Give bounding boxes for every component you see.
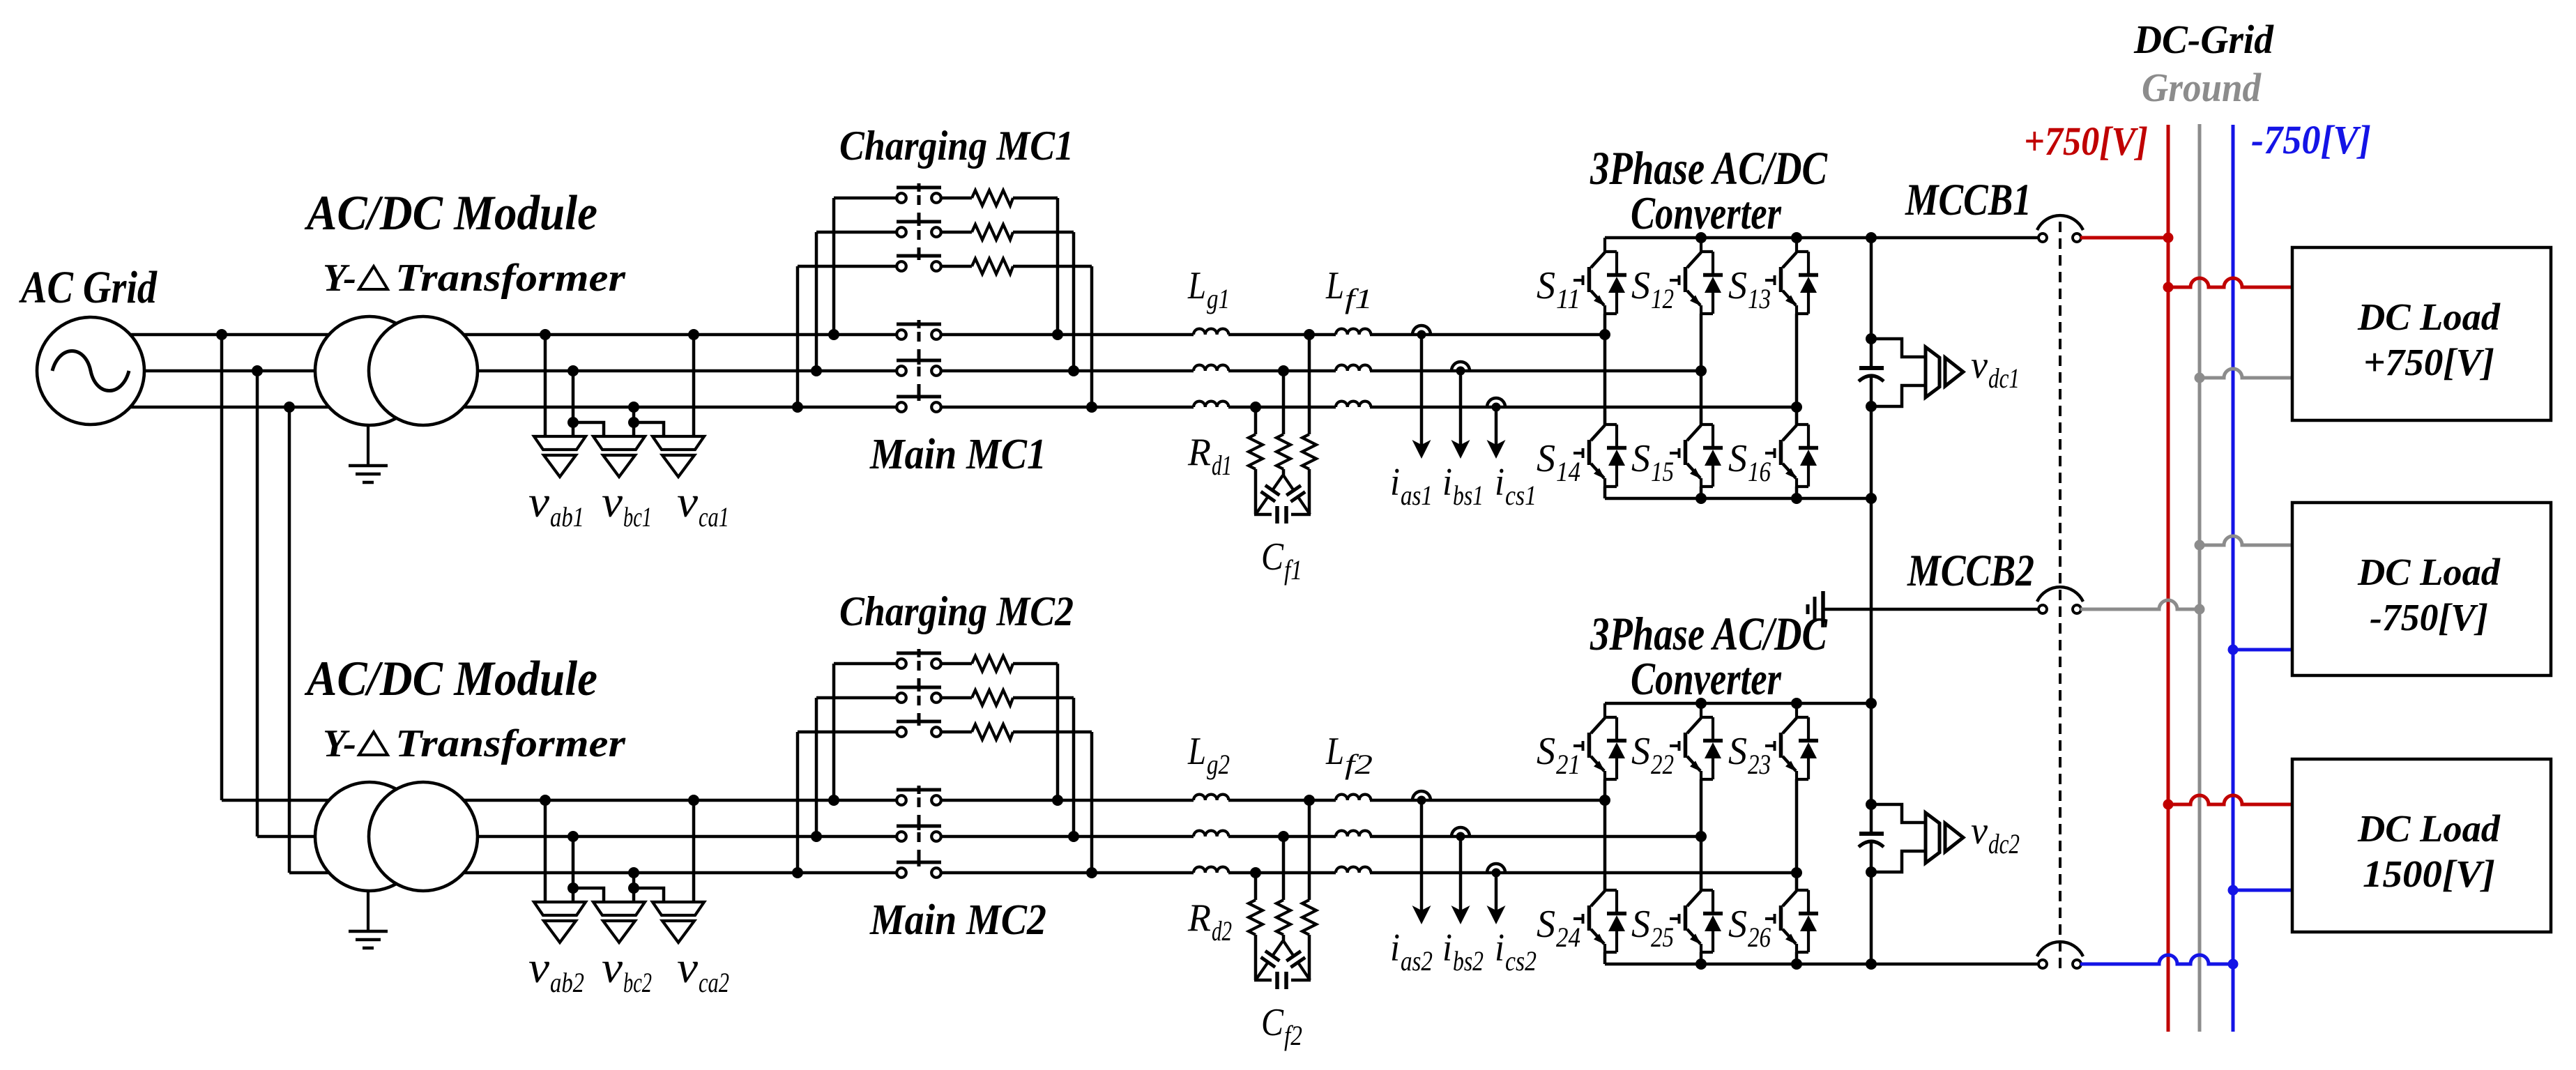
svg-text:S: S	[1631, 437, 1650, 480]
svg-text:+750[V]: +750[V]	[2024, 119, 2148, 164]
svg-text:v: v	[602, 477, 623, 526]
svg-text:-750[V]: -750[V]	[2370, 596, 2488, 639]
svg-text:S: S	[1537, 903, 1555, 946]
svg-text:R: R	[1187, 431, 1211, 474]
svg-text:bs1: bs1	[1453, 480, 1484, 511]
svg-text:S: S	[1537, 437, 1555, 480]
svg-text:16: 16	[1748, 456, 1771, 487]
svg-text:dc2: dc2	[1988, 828, 2020, 859]
svg-text:26: 26	[1748, 922, 1771, 953]
svg-text:f1: f1	[1284, 554, 1302, 586]
svg-text:S: S	[1537, 264, 1555, 307]
svg-text:14: 14	[1556, 456, 1580, 487]
svg-text:Y-: Y-	[323, 722, 356, 765]
svg-text:Main MC1: Main MC1	[869, 431, 1046, 478]
svg-text:S: S	[1631, 903, 1650, 946]
svg-text:S: S	[1728, 903, 1747, 946]
svg-text:i: i	[1495, 926, 1504, 970]
svg-text:25: 25	[1651, 922, 1674, 953]
svg-text:AC/DC Module: AC/DC Module	[304, 652, 597, 706]
svg-text:DC-Grid: DC-Grid	[2133, 17, 2274, 62]
svg-text:C: C	[1261, 535, 1284, 579]
svg-text:v: v	[602, 942, 623, 992]
svg-text:12: 12	[1651, 283, 1674, 314]
svg-text:AC/DC Module: AC/DC Module	[304, 186, 597, 240]
svg-text:S: S	[1728, 264, 1747, 307]
svg-text:DC Load: DC Load	[2357, 296, 2501, 338]
svg-text:C: C	[1261, 1001, 1284, 1044]
svg-text:22: 22	[1651, 749, 1674, 780]
svg-text:L: L	[1187, 264, 1206, 307]
svg-text:13: 13	[1748, 283, 1771, 314]
svg-text:AC Grid: AC Grid	[19, 262, 158, 313]
svg-text:Charging MC1: Charging MC1	[839, 123, 1074, 169]
svg-text:S: S	[1728, 730, 1747, 773]
svg-text:MCCB1: MCCB1	[1905, 175, 2032, 225]
svg-text:23: 23	[1748, 749, 1771, 780]
svg-text:ca1: ca1	[699, 501, 729, 533]
svg-text:-750[V]: -750[V]	[2251, 117, 2371, 162]
svg-text:S: S	[1631, 730, 1650, 773]
svg-text:R: R	[1187, 896, 1211, 940]
svg-text:v: v	[528, 942, 550, 992]
svg-text:S: S	[1728, 437, 1747, 480]
svg-text:L: L	[1325, 264, 1344, 307]
svg-text:15: 15	[1651, 456, 1674, 487]
svg-text:i: i	[1390, 926, 1400, 970]
svg-text:as1: as1	[1401, 480, 1433, 511]
svg-text:Converter: Converter	[1631, 653, 1782, 705]
svg-text:24: 24	[1556, 922, 1580, 953]
svg-text:ab1: ab1	[550, 501, 584, 533]
svg-text:Converter: Converter	[1631, 188, 1782, 239]
svg-text:d1: d1	[1212, 450, 1232, 481]
svg-text:Main MC2: Main MC2	[869, 896, 1046, 944]
svg-text:L: L	[1325, 730, 1344, 773]
svg-text:i: i	[1390, 461, 1400, 504]
svg-text:L: L	[1187, 730, 1206, 773]
svg-text:bs2: bs2	[1453, 945, 1484, 977]
svg-text:1500[V]: 1500[V]	[2363, 853, 2495, 895]
svg-text:Y-: Y-	[323, 257, 356, 300]
svg-text:Ground: Ground	[2142, 65, 2262, 110]
svg-text:g1: g1	[1207, 283, 1230, 314]
svg-text:3Phase AC/DC: 3Phase AC/DC	[1590, 607, 1827, 660]
svg-text:Transformer: Transformer	[395, 722, 626, 765]
svg-text:3Phase AC/DC: 3Phase AC/DC	[1590, 142, 1827, 194]
svg-text:i: i	[1442, 461, 1452, 504]
svg-text:bc1: bc1	[623, 501, 652, 533]
svg-text:DC Load: DC Load	[2357, 807, 2501, 850]
svg-text:MCCB2: MCCB2	[1907, 546, 2034, 596]
svg-text:DC Load: DC Load	[2357, 551, 2501, 593]
svg-text:v: v	[677, 942, 699, 992]
svg-text:f1: f1	[1345, 283, 1373, 314]
svg-text:as2: as2	[1401, 945, 1433, 977]
svg-text:11: 11	[1556, 283, 1580, 314]
svg-text:v: v	[1971, 809, 1988, 853]
svg-text:+750[V]: +750[V]	[2363, 341, 2494, 383]
svg-text:i: i	[1442, 926, 1452, 970]
svg-text:Charging MC2: Charging MC2	[839, 588, 1074, 634]
svg-text:i: i	[1495, 461, 1504, 504]
svg-text:Transformer: Transformer	[395, 257, 626, 300]
svg-text:v: v	[1971, 344, 1988, 387]
svg-text:d2: d2	[1212, 915, 1232, 947]
svg-text:v: v	[528, 477, 550, 526]
svg-text:bc2: bc2	[623, 967, 652, 998]
svg-text:21: 21	[1556, 749, 1580, 780]
svg-text:cs2: cs2	[1505, 945, 1537, 977]
svg-text:g2: g2	[1207, 749, 1230, 780]
svg-text:S: S	[1631, 264, 1650, 307]
svg-text:cs1: cs1	[1505, 480, 1537, 511]
svg-text:f2: f2	[1284, 1020, 1302, 1051]
svg-text:dc1: dc1	[1988, 362, 2020, 394]
svg-text:ab2: ab2	[550, 967, 584, 998]
svg-text:v: v	[677, 477, 699, 526]
svg-text:ca2: ca2	[699, 967, 729, 998]
svg-text:S: S	[1537, 730, 1555, 773]
svg-text:f2: f2	[1345, 749, 1373, 780]
